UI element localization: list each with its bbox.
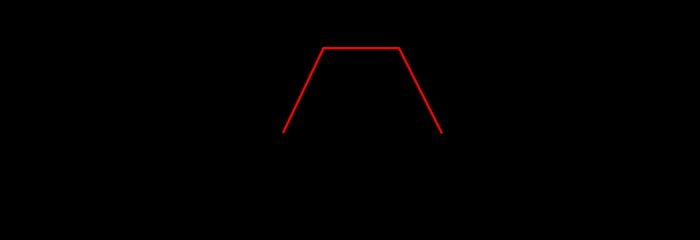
signal trace: red trapezoidal pulse — [283, 48, 442, 133]
